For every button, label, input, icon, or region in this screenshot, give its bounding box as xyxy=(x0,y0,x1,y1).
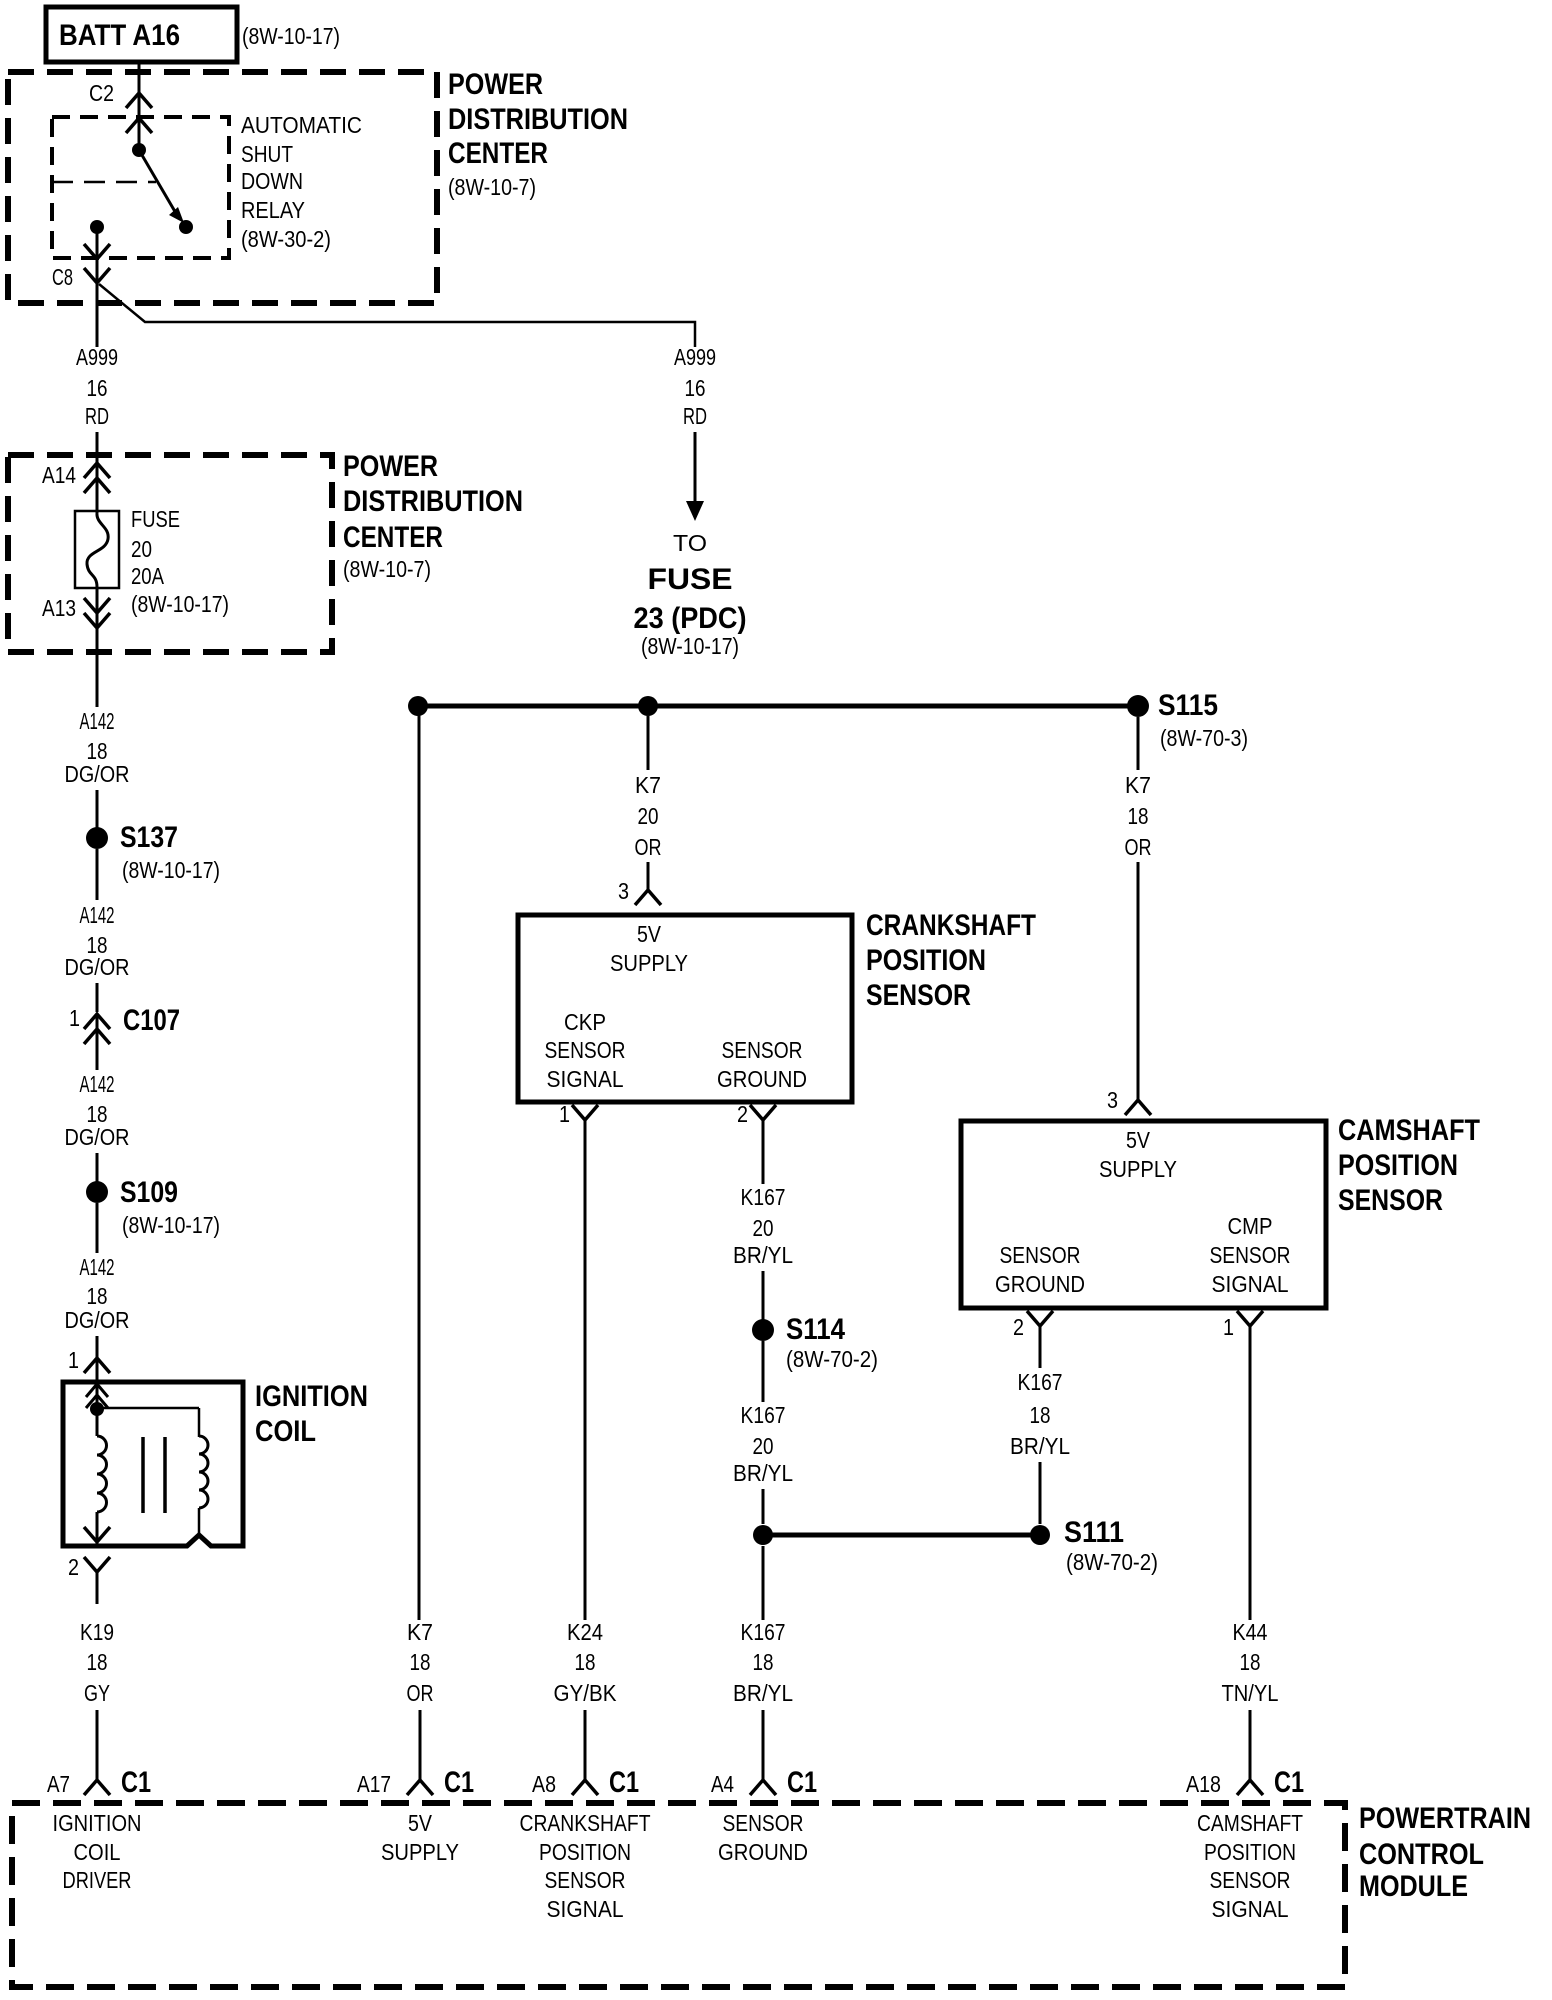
splice S137 xyxy=(86,821,220,883)
svg-text:A7: A7 xyxy=(47,1771,70,1797)
svg-text:DG/OR: DG/OR xyxy=(65,1124,130,1150)
svg-text:RD: RD xyxy=(85,403,109,429)
wire CKP ground down xyxy=(762,1152,765,1184)
svg-text:CONTROL: CONTROL xyxy=(1359,1838,1484,1871)
wire sensor ground to PCM A4 xyxy=(762,1546,765,1620)
svg-text:SENSOR: SENSOR xyxy=(723,1810,804,1836)
svg-text:IGNITION: IGNITION xyxy=(255,1380,368,1413)
primary winding to pin 2 xyxy=(84,1512,110,1546)
connector C8 xyxy=(52,264,110,290)
PCM pin A17 connector C1 xyxy=(357,1766,474,1799)
svg-text:CAMSHAFT: CAMSHAFT xyxy=(1197,1810,1303,1836)
svg-text:C1: C1 xyxy=(609,1766,639,1799)
svg-text:TO: TO xyxy=(673,530,707,556)
ignition coil pin1 terminal chevrons xyxy=(86,1358,108,1436)
svg-text:DISTRIBUTION: DISTRIBUTION xyxy=(448,103,628,136)
5V supply bus xyxy=(418,704,1138,709)
relay common contact node xyxy=(132,143,146,157)
wire bus to CKP sensor xyxy=(647,716,650,770)
svg-text:A142: A142 xyxy=(80,1254,115,1280)
svg-text:S137: S137 xyxy=(120,821,178,854)
wire label K167 18 BR/YL (bottom) xyxy=(733,1619,793,1706)
BATT A16 reference (8W-10-17) xyxy=(242,23,340,49)
svg-text:FUSE: FUSE xyxy=(648,563,733,596)
wire label A999 16 RD (right) xyxy=(674,344,716,429)
CKP 5V supply pin label xyxy=(610,921,688,976)
ignition coil secondary winding xyxy=(199,1436,208,1508)
wire A999 into PDC fuse xyxy=(96,432,99,513)
svg-text:5V: 5V xyxy=(637,921,662,947)
relay NO contact node xyxy=(179,220,193,234)
svg-text:2: 2 xyxy=(68,1554,79,1580)
svg-text:20A: 20A xyxy=(131,563,165,589)
svg-text:(8W-30-2): (8W-30-2) xyxy=(241,226,331,252)
svg-text:C8: C8 xyxy=(52,264,73,290)
CKP sensor signal pin label xyxy=(545,1009,626,1092)
CMP sensor pin 3 connector xyxy=(1107,1087,1151,1115)
power distribution center label (top) xyxy=(448,68,628,200)
svg-text:FUSE: FUSE xyxy=(131,506,180,532)
svg-text:(8W-10-17): (8W-10-17) xyxy=(641,633,739,659)
svg-text:OR: OR xyxy=(635,834,662,860)
wire xyxy=(96,1046,99,1070)
svg-text:BR/YL: BR/YL xyxy=(1010,1433,1070,1459)
secondary output to coil tower xyxy=(198,1508,201,1535)
relay output node xyxy=(90,220,104,234)
svg-text:A18: A18 xyxy=(1186,1771,1221,1797)
svg-text:K24: K24 xyxy=(567,1619,603,1645)
svg-text:S111: S111 xyxy=(1064,1516,1124,1549)
fuse 20 20A xyxy=(75,511,119,588)
svg-text:CENTER: CENTER xyxy=(343,521,443,554)
svg-text:GROUND: GROUND xyxy=(718,1839,808,1865)
svg-text:(8W-10-17): (8W-10-17) xyxy=(242,23,340,49)
splice S109 xyxy=(86,1176,220,1238)
connector C2 xyxy=(89,80,152,133)
PCM 5V supply label xyxy=(381,1810,459,1865)
svg-text:(8W-70-3): (8W-70-3) xyxy=(1160,725,1248,751)
svg-text:GY/BK: GY/BK xyxy=(554,1680,618,1706)
wire to S111 xyxy=(1039,1462,1042,1524)
svg-text:5V: 5V xyxy=(1126,1127,1151,1153)
automatic shut down relay label xyxy=(241,112,362,252)
relay armature dashed link xyxy=(52,181,156,184)
svg-text:(8W-10-17): (8W-10-17) xyxy=(131,591,229,617)
svg-text:SIGNAL: SIGNAL xyxy=(547,1896,624,1922)
wire K7 to PCM xyxy=(419,1710,422,1780)
svg-text:A999: A999 xyxy=(674,344,716,370)
wire xyxy=(96,983,99,1012)
svg-text:16: 16 xyxy=(685,375,706,401)
ignition coil label xyxy=(255,1380,368,1448)
ground tie line xyxy=(763,1533,1040,1538)
svg-text:SENSOR: SENSOR xyxy=(866,979,971,1012)
svg-text:RELAY: RELAY xyxy=(241,197,305,223)
svg-text:1: 1 xyxy=(559,1101,570,1127)
svg-text:POWER: POWER xyxy=(448,68,543,101)
svg-text:CKP: CKP xyxy=(564,1009,606,1035)
PCM pin A18 connector C1 xyxy=(1186,1766,1304,1799)
crankshaft position sensor label xyxy=(866,909,1036,1012)
svg-text:RD: RD xyxy=(683,403,707,429)
wire xyxy=(762,1341,765,1402)
svg-text:SUPPLY: SUPPLY xyxy=(1099,1156,1177,1182)
svg-text:A14: A14 xyxy=(42,462,76,488)
junction node xyxy=(753,1525,773,1545)
wire xyxy=(96,849,99,900)
powertrain control module dashed box xyxy=(12,1803,1345,1987)
wire xyxy=(647,862,650,890)
svg-text:(8W-10-7): (8W-10-7) xyxy=(343,556,431,582)
wire label K167 20 BR/YL (1) xyxy=(733,1184,793,1268)
svg-text:18: 18 xyxy=(1240,1649,1261,1675)
wire label A999 16 RD (left) xyxy=(76,344,118,429)
svg-text:S114: S114 xyxy=(786,1313,845,1346)
CKP sensor pin 3 connector xyxy=(618,878,661,905)
svg-text:POSITION: POSITION xyxy=(1204,1839,1296,1865)
wire label K167 18 BR/YL (right) xyxy=(1010,1369,1070,1459)
wire xyxy=(96,1203,99,1253)
svg-text:2: 2 xyxy=(737,1101,748,1127)
ignition coil core xyxy=(143,1437,165,1513)
wire C8 down to fuse (A999 RD) xyxy=(96,283,99,347)
svg-text:AUTOMATIC: AUTOMATIC xyxy=(241,112,362,138)
svg-text:SIGNAL: SIGNAL xyxy=(1212,1271,1289,1297)
CKP sensor ground pin label xyxy=(717,1037,807,1092)
svg-text:CAMSHAFT: CAMSHAFT xyxy=(1338,1114,1480,1147)
fuse value label xyxy=(131,506,229,617)
svg-text:18: 18 xyxy=(1128,803,1149,829)
svg-text:POSITION: POSITION xyxy=(1338,1149,1458,1182)
bus junction left xyxy=(408,696,428,716)
svg-text:3: 3 xyxy=(1107,1087,1118,1113)
svg-text:SIGNAL: SIGNAL xyxy=(547,1066,624,1092)
svg-text:18: 18 xyxy=(87,1283,108,1309)
svg-text:K19: K19 xyxy=(80,1619,114,1645)
wire xyxy=(96,1336,99,1360)
svg-text:20: 20 xyxy=(131,536,152,562)
svg-text:20: 20 xyxy=(638,803,659,829)
svg-text:GY: GY xyxy=(84,1680,110,1706)
wire S115 to CMP sensor xyxy=(1137,717,1140,770)
svg-text:POWER: POWER xyxy=(343,450,438,483)
svg-text:18: 18 xyxy=(1030,1402,1051,1428)
svg-text:A142: A142 xyxy=(80,708,115,734)
power distribution center dashed box (top) xyxy=(8,72,437,303)
svg-text:K167: K167 xyxy=(1018,1369,1063,1395)
svg-text:SUPPLY: SUPPLY xyxy=(381,1839,459,1865)
wire C8 branch to fuse 23 xyxy=(99,284,695,347)
svg-text:K167: K167 xyxy=(741,1619,786,1645)
ignition coil pin 2 connector xyxy=(68,1554,110,1604)
svg-text:23 (PDC): 23 (PDC) xyxy=(634,602,747,635)
svg-text:K7: K7 xyxy=(407,1619,433,1645)
svg-text:SENSOR: SENSOR xyxy=(1338,1184,1443,1217)
wire relay output down xyxy=(84,227,110,282)
wire label A142 18 DG/OR (1) xyxy=(65,708,130,787)
svg-text:SENSOR: SENSOR xyxy=(1210,1867,1291,1893)
svg-text:CENTER: CENTER xyxy=(448,137,548,170)
wire label A142 18 DG/OR (4) xyxy=(65,1254,130,1333)
PCM ignition coil driver label xyxy=(53,1810,142,1893)
camshaft position sensor box xyxy=(961,1121,1326,1308)
svg-text:DRIVER: DRIVER xyxy=(63,1867,132,1893)
svg-text:1: 1 xyxy=(1223,1314,1234,1340)
PCM sensor ground label xyxy=(718,1810,808,1865)
svg-text:(8W-70-2): (8W-70-2) xyxy=(786,1346,878,1372)
PCM pin A4 connector C1 xyxy=(711,1766,817,1799)
svg-text:DG/OR: DG/OR xyxy=(65,954,130,980)
svg-text:18: 18 xyxy=(575,1649,596,1675)
svg-text:MODULE: MODULE xyxy=(1359,1870,1468,1903)
svg-text:A17: A17 xyxy=(357,1771,391,1797)
svg-text:A999: A999 xyxy=(76,344,118,370)
CMP pin 1 connector xyxy=(1223,1311,1263,1356)
bus junction middle xyxy=(638,696,658,716)
svg-text:SENSOR: SENSOR xyxy=(545,1867,626,1893)
wire to secondary winding xyxy=(97,1408,199,1437)
svg-text:OR: OR xyxy=(1125,834,1152,860)
svg-text:C1: C1 xyxy=(444,1766,474,1799)
crankshaft position sensor box xyxy=(518,915,852,1102)
wire BATT A16 to relay xyxy=(138,62,141,152)
svg-text:1: 1 xyxy=(68,1347,79,1373)
wire xyxy=(1137,862,1140,1100)
svg-text:POSITION: POSITION xyxy=(866,944,986,977)
svg-text:K167: K167 xyxy=(741,1402,786,1428)
svg-text:K7: K7 xyxy=(1125,772,1151,798)
ignition coil pin 1 connector xyxy=(68,1347,110,1373)
svg-text:TN/YL: TN/YL xyxy=(1222,1680,1279,1706)
relay switch arm (arrow) xyxy=(139,150,184,223)
svg-text:20: 20 xyxy=(753,1215,774,1241)
svg-text:BR/YL: BR/YL xyxy=(733,1460,793,1486)
wire label A142 18 DG/OR (3) xyxy=(65,1071,130,1150)
svg-text:SHUT: SHUT xyxy=(241,141,293,167)
svg-text:C1: C1 xyxy=(787,1766,817,1799)
connector C107 pin 1 xyxy=(69,1004,180,1046)
svg-text:K167: K167 xyxy=(741,1184,786,1210)
svg-text:A142: A142 xyxy=(80,1071,115,1097)
splice S111 xyxy=(1030,1516,1158,1575)
svg-text:2: 2 xyxy=(1013,1314,1024,1340)
wire label K44 18 TN/YL xyxy=(1222,1619,1279,1706)
svg-text:(8W-10-17): (8W-10-17) xyxy=(122,857,220,883)
CKP pin 2 connector xyxy=(737,1101,776,1152)
ignition coil box xyxy=(63,1382,243,1546)
svg-text:SUPPLY: SUPPLY xyxy=(610,950,688,976)
wire label A142 18 DG/OR (2) xyxy=(65,902,130,980)
wire K44 to PCM xyxy=(1249,1710,1252,1780)
svg-text:(8W-10-17): (8W-10-17) xyxy=(122,1212,220,1238)
wire CMP ground down xyxy=(1039,1356,1042,1368)
svg-text:POSITION: POSITION xyxy=(539,1839,631,1865)
svg-text:POWERTRAIN: POWERTRAIN xyxy=(1359,1802,1531,1835)
automatic shut down relay dashed box xyxy=(52,117,229,258)
svg-text:DG/OR: DG/OR xyxy=(65,1307,130,1333)
svg-text:IGNITION: IGNITION xyxy=(53,1810,142,1836)
PCM crankshaft position sensor signal label xyxy=(520,1810,651,1922)
svg-text:1: 1 xyxy=(69,1005,80,1031)
svg-text:(8W-70-2): (8W-70-2) xyxy=(1066,1549,1158,1575)
svg-text:20: 20 xyxy=(753,1433,774,1459)
wire K19 to PCM xyxy=(96,1710,99,1780)
terminal A14 xyxy=(42,462,110,493)
svg-text:(8W-10-7): (8W-10-7) xyxy=(448,174,536,200)
splice S114 xyxy=(752,1313,878,1372)
svg-text:A142: A142 xyxy=(80,902,115,928)
camshaft position sensor label xyxy=(1338,1114,1480,1217)
battery feed box BATT A16 xyxy=(46,7,237,62)
wire label K19 18 GY xyxy=(80,1619,114,1706)
svg-text:BATT A16: BATT A16 xyxy=(59,19,180,52)
ignition coil internal node xyxy=(90,1402,104,1416)
svg-text:SENSOR: SENSOR xyxy=(545,1037,626,1063)
svg-text:SENSOR: SENSOR xyxy=(1000,1242,1081,1268)
svg-text:16: 16 xyxy=(87,375,108,401)
svg-text:A8: A8 xyxy=(532,1771,556,1797)
wire fuse output down xyxy=(96,588,99,707)
svg-text:K7: K7 xyxy=(635,772,661,798)
svg-text:C107: C107 xyxy=(123,1004,180,1037)
svg-text:DISTRIBUTION: DISTRIBUTION xyxy=(343,485,523,518)
svg-text:A4: A4 xyxy=(711,1771,734,1797)
powertrain control module label xyxy=(1359,1802,1531,1903)
svg-text:C2: C2 xyxy=(89,80,114,106)
ignition coil primary winding xyxy=(97,1436,107,1512)
wire label K7 20 OR xyxy=(635,772,662,860)
svg-text:COIL: COIL xyxy=(74,1839,121,1865)
wire CKP signal to PCM A8 xyxy=(584,1152,587,1620)
svg-text:C1: C1 xyxy=(121,1766,151,1799)
svg-text:CRANKSHAFT: CRANKSHAFT xyxy=(866,909,1036,942)
wire xyxy=(96,790,99,828)
splice S115 xyxy=(1127,689,1248,751)
wire K167 to PCM xyxy=(762,1710,765,1780)
svg-text:OR: OR xyxy=(407,1680,434,1706)
svg-text:BR/YL: BR/YL xyxy=(733,1680,793,1706)
terminal A13 xyxy=(42,595,110,628)
CMP 5V supply pin label xyxy=(1099,1127,1177,1182)
PCM camshaft position sensor signal label xyxy=(1197,1810,1303,1922)
svg-text:S115: S115 xyxy=(1158,689,1218,722)
svg-text:3: 3 xyxy=(618,878,629,904)
wire label K7 18 OR (left) xyxy=(407,1619,434,1706)
svg-text:S109: S109 xyxy=(120,1176,178,1209)
PCM pin A7 connector C1 xyxy=(47,1766,151,1799)
wire label K24 18 GY/BK xyxy=(554,1619,618,1706)
svg-text:5V: 5V xyxy=(408,1810,433,1836)
CMP pin 2 connector xyxy=(1013,1311,1053,1356)
svg-text:CRANKSHAFT: CRANKSHAFT xyxy=(520,1810,651,1836)
svg-text:18: 18 xyxy=(410,1649,431,1675)
power distribution center label (fuse box) xyxy=(343,450,523,582)
wire 5V supply to PCM A17 xyxy=(418,706,421,1620)
svg-text:DOWN: DOWN xyxy=(241,168,303,194)
power distribution center dashed box (fuse) xyxy=(8,455,332,652)
svg-text:GROUND: GROUND xyxy=(995,1271,1085,1297)
svg-text:SENSOR: SENSOR xyxy=(722,1037,803,1063)
wire xyxy=(762,1271,765,1320)
wire xyxy=(762,1489,765,1524)
wire xyxy=(96,1153,99,1182)
wire label K167 20 BR/YL (2) xyxy=(733,1402,793,1486)
svg-text:18: 18 xyxy=(87,1649,108,1675)
wire A999 to fuse 23 arrow xyxy=(686,432,704,521)
wire label K7 18 OR (right) xyxy=(1125,772,1152,860)
svg-text:K44: K44 xyxy=(1233,1619,1268,1645)
svg-text:A13: A13 xyxy=(42,595,76,621)
wire K24 to PCM xyxy=(584,1710,587,1780)
to fuse 23 (PDC) label xyxy=(634,530,747,659)
svg-text:C1: C1 xyxy=(1274,1766,1304,1799)
CMP sensor ground pin label xyxy=(995,1242,1085,1297)
svg-text:SENSOR: SENSOR xyxy=(1210,1242,1291,1268)
wire CMP signal to PCM A18 xyxy=(1249,1356,1252,1620)
PCM pin A8 connector C1 xyxy=(532,1766,639,1799)
svg-text:18: 18 xyxy=(753,1649,774,1675)
svg-text:COIL: COIL xyxy=(255,1415,316,1448)
CKP pin 1 connector xyxy=(559,1101,598,1152)
svg-text:GROUND: GROUND xyxy=(717,1066,807,1092)
svg-text:BR/YL: BR/YL xyxy=(733,1242,793,1268)
svg-text:CMP: CMP xyxy=(1228,1213,1273,1239)
svg-text:DG/OR: DG/OR xyxy=(65,761,130,787)
svg-text:SIGNAL: SIGNAL xyxy=(1212,1896,1289,1922)
CMP sensor signal pin label xyxy=(1210,1213,1291,1297)
